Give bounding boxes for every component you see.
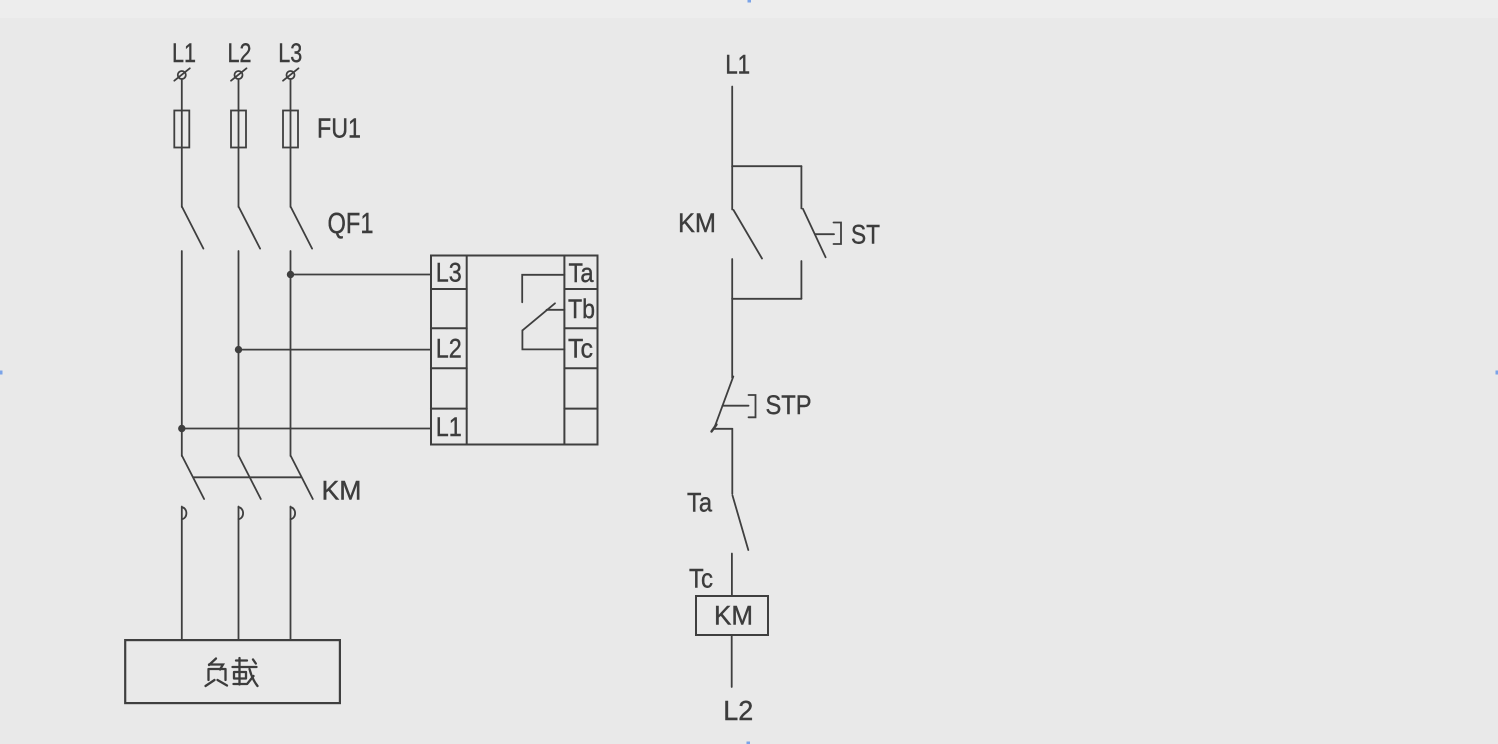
fuse FU1 phase L3 (283, 111, 298, 148)
terminal L2 (231, 68, 247, 80)
wire L1 terminal to breaker (181, 80, 183, 208)
coil KM box (696, 596, 768, 635)
wire L2 contactor to load (238, 507, 240, 641)
contactor KM pole 2 blade (239, 456, 261, 499)
svg-text:ST: ST (851, 220, 880, 250)
svg-text:L1: L1 (172, 38, 196, 68)
wire L3 terminal to breaker (290, 80, 292, 208)
contactor KM pole 3 blade (291, 456, 313, 499)
pushbutton STP seat (714, 428, 732, 430)
relay internal contact Ta lead (522, 275, 564, 303)
pushbutton STP blade (714, 377, 733, 429)
contactor fixed contact arc pole 3 (291, 507, 296, 519)
svg-text:Tc: Tc (689, 564, 713, 594)
svg-text:FU1: FU1 (317, 113, 361, 144)
svg-text:L1: L1 (725, 50, 750, 80)
svg-text:L3: L3 (436, 258, 462, 288)
wire L2 breaker to contactor (238, 251, 240, 456)
terminal L1 (174, 68, 190, 80)
junction node L1 tap (179, 426, 185, 432)
contactor fixed contact arc pole 1 (182, 507, 187, 519)
breaker QF1 pole 1 (182, 207, 203, 249)
load box (125, 640, 340, 703)
pushbutton STP blade tick (712, 425, 717, 432)
svg-text:KM: KM (322, 476, 362, 506)
wire Ta contact to coil (731, 554, 733, 596)
wire branch to STP (731, 299, 733, 378)
load text 负载 (206, 658, 258, 686)
relay internal contact Tc lead (522, 330, 564, 349)
svg-text:KM: KM (714, 601, 753, 631)
wire left branch upper (731, 166, 733, 209)
wire branch bottom bar (732, 298, 801, 300)
svg-text:L2: L2 (436, 334, 462, 364)
svg-text:STP: STP (766, 390, 812, 420)
pushbutton STP actuator (723, 405, 749, 407)
wire L2 terminal to breaker (238, 80, 240, 208)
wire L3 breaker to contactor (290, 251, 292, 456)
contactor KM linkage bar (194, 476, 302, 478)
fuse FU1 phase L2 (231, 111, 246, 148)
contact Ta blade (733, 496, 749, 551)
svg-text:Tc: Tc (568, 334, 593, 364)
wire L1 breaker to contactor (181, 251, 183, 456)
pushbutton STP cap (749, 395, 756, 417)
pushbutton ST cap (834, 223, 842, 245)
relay cell divider 2 (431, 327, 598, 329)
svg-text:KM: KM (678, 208, 716, 238)
relay internal contact Tb lead (547, 309, 565, 311)
wire tap L3 to relay (291, 274, 432, 276)
wire tap L2 to relay (239, 349, 432, 351)
contactor fixed contact arc pole 2 (239, 507, 244, 519)
pushbutton ST blade (803, 209, 826, 257)
relay cell divider 1 (431, 288, 598, 290)
contact KM aux blade (734, 210, 763, 259)
breaker QF1 pole 2 (239, 207, 260, 249)
wire left branch lower (731, 259, 733, 299)
relay internal contact blade (522, 303, 555, 330)
selection handles (artifacts) (748, 0, 752, 3)
wire tap L1 to relay (182, 428, 431, 430)
svg-text:L2: L2 (723, 695, 753, 726)
pushbutton ST actuator (815, 233, 834, 235)
wire right branch upper (800, 166, 802, 208)
wire STP to Ta contact (731, 429, 733, 494)
svg-text:QF1: QF1 (328, 208, 374, 240)
wire right branch lower (800, 261, 802, 299)
wire L1 contactor to load (181, 507, 183, 641)
relay cell divider 3 (431, 367, 598, 369)
svg-text:Ta: Ta (569, 258, 595, 288)
relay left terminal column (466, 256, 468, 445)
relay cell divider 4 (431, 408, 598, 410)
wire L3 contactor to load (290, 507, 292, 641)
breaker QF1 pole 3 (291, 207, 312, 249)
svg-text:Tb: Tb (568, 294, 595, 324)
junction node L2 tap (236, 347, 242, 353)
terminal L3 (283, 68, 299, 80)
junction node L3 tap (288, 272, 294, 278)
svg-text:L3: L3 (278, 38, 302, 68)
contactor KM pole 1 blade (182, 456, 204, 499)
wire L1 down to branch (731, 87, 733, 167)
svg-text:L2: L2 (228, 38, 252, 68)
relay block outline (431, 256, 598, 445)
svg-text:L1: L1 (436, 412, 462, 442)
wire branch top bar (732, 165, 801, 167)
fuse FU1 phase L1 (174, 111, 189, 148)
relay right terminal column (563, 256, 565, 445)
wire coil to L2 (731, 635, 733, 687)
svg-text:Ta: Ta (687, 488, 713, 518)
